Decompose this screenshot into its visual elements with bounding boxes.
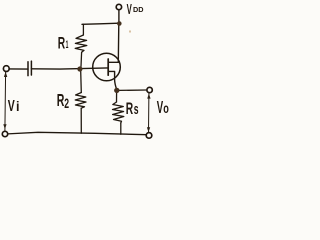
svg-text:V: V <box>8 98 15 115</box>
svg-text:V: V <box>127 1 132 18</box>
svg-text:i: i <box>16 99 20 114</box>
svg-text:1: 1 <box>66 39 69 51</box>
svg-text:R: R <box>58 35 65 53</box>
svg-text:s: s <box>134 102 139 118</box>
svg-text:2: 2 <box>64 96 69 111</box>
svg-text:R: R <box>126 100 133 118</box>
svg-text:o: o <box>163 101 169 116</box>
svg-text:DD: DD <box>133 5 144 14</box>
